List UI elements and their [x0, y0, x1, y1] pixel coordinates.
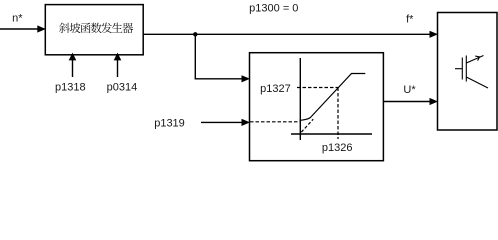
- parameter arrow p0314 into ramp generator: [117, 60, 119, 78]
- wire U* from V/f box to inverter: [383, 101, 430, 103]
- body bar: [465, 56, 467, 82]
- dashed linear characteristic from origin: [301, 119, 313, 132]
- block inverter: [438, 13, 498, 131]
- dashed level line p1319 inside box: [250, 121, 300, 123]
- wire p1319 into V/f box: [201, 121, 242, 123]
- V/f curve: boost start, ramp, plateau: [300, 74, 366, 121]
- svg-text:p1327: p1327: [260, 83, 291, 95]
- V/f graph: horizontal axis: [291, 133, 372, 135]
- wire n* input into ramp generator: [0, 28, 38, 30]
- svg-text:p1319: p1319: [154, 118, 185, 130]
- svg-text:n*: n*: [12, 12, 23, 24]
- svg-text:U*: U*: [403, 84, 416, 96]
- collector lead with arrow: [466, 56, 483, 64]
- transistor IGBT symbol inside inverter: [455, 56, 488, 89]
- svg-text:p1318: p1318: [55, 82, 86, 94]
- parameter arrow p1318 into ramp generator: [72, 60, 74, 78]
- block V/f characteristic: [250, 53, 384, 161]
- wire junction down to V/f box: [194, 34, 196, 79]
- svg-text:p0314: p0314: [107, 82, 138, 94]
- gate bar: [461, 58, 463, 80]
- V/f graph: vertical axis: [299, 58, 301, 140]
- svg-text:p1326: p1326: [322, 142, 353, 154]
- dashed level line p1327: [297, 87, 338, 89]
- svg-text:f*: f*: [406, 14, 414, 26]
- emitter lead: [466, 77, 488, 88]
- wire f* output from ramp generator to inverter: [143, 33, 430, 35]
- node junction on f* wire: [193, 32, 197, 36]
- dashed vertical line p1326: [337, 88, 339, 140]
- block ramp-function generator (斜坡函数发生器): [45, 5, 143, 55]
- svg-text:p1300 = 0: p1300 = 0: [249, 2, 298, 14]
- gate lead: [455, 68, 462, 70]
